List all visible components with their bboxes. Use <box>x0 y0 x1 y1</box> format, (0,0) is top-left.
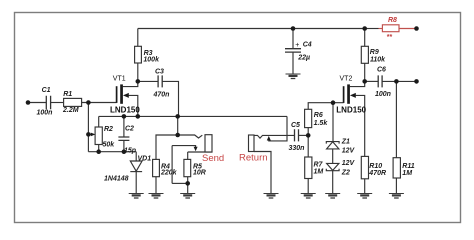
wire rail to R8 <box>365 28 379 30</box>
svg-text:R8: R8 <box>388 17 397 24</box>
wire R2 wiper <box>88 133 93 135</box>
node input terminal <box>26 100 31 105</box>
wire R1 to VT1 gate <box>81 102 116 104</box>
node R5 bottom junction <box>185 181 190 186</box>
wire send line left to R4 <box>156 135 178 159</box>
zener Z1 <box>326 142 339 149</box>
wire C4 top lead <box>292 29 294 49</box>
svg-text:VT1: VT1 <box>113 76 126 83</box>
svg-text:100n: 100n <box>375 91 391 98</box>
svg-text:R9: R9 <box>370 49 379 56</box>
resistor R3 <box>135 46 142 63</box>
wire C5 right <box>299 134 309 136</box>
wire send jack bottom line <box>188 151 213 153</box>
resistor R6 <box>305 109 312 127</box>
svg-text:2.2M: 2.2M <box>62 107 79 114</box>
node zener gate junction <box>331 100 336 105</box>
wire R11 top lead <box>395 81 397 157</box>
wire zener column <box>332 103 334 142</box>
wire R2 bottom lead <box>98 145 100 152</box>
svg-text:Send: Send <box>202 153 224 164</box>
resistor R8 red <box>382 25 399 32</box>
return jack plug <box>249 135 255 152</box>
wire VT1 source <box>129 95 138 116</box>
svg-text:10R: 10R <box>193 170 206 177</box>
resistor R7 <box>305 157 312 179</box>
svg-text:Return: Return <box>239 153 268 164</box>
wire R3 top lead <box>137 29 139 47</box>
ground under zeners <box>325 194 340 199</box>
svg-text:12V: 12V <box>342 147 356 154</box>
wire C6 right to output <box>382 80 416 82</box>
svg-text:1.5k: 1.5k <box>314 120 329 127</box>
wire zener bottom <box>332 171 334 194</box>
node R8 right terminal <box>414 26 419 31</box>
ground under C4 <box>286 74 301 79</box>
wire zener middle <box>332 149 334 164</box>
transistor VT1 <box>117 84 129 103</box>
wire VD1 top lead <box>135 152 137 161</box>
svg-text:VD1: VD1 <box>138 156 152 163</box>
wire R2 top lead <box>98 116 100 127</box>
node R11 junction <box>394 79 399 84</box>
arrow R2 wiper <box>91 133 96 137</box>
ground under R5 <box>180 194 195 199</box>
wire R9 bottom lead <box>364 63 366 81</box>
wire VT2 source <box>356 95 365 156</box>
wire R5 top lead <box>187 152 189 159</box>
arrow send contact <box>194 147 198 152</box>
node VT1 source junction <box>136 114 141 119</box>
wire send normal contact <box>172 146 196 148</box>
diode VD1 <box>130 161 142 172</box>
svg-text:R2: R2 <box>104 126 113 133</box>
svg-text:22µ: 22µ <box>297 54 310 61</box>
wire C3 left <box>138 80 158 82</box>
ground under return jack <box>264 194 279 199</box>
send jack plug <box>205 135 212 152</box>
svg-text:R6: R6 <box>314 112 323 119</box>
wire C3 right down to send node <box>162 81 178 116</box>
svg-text:VT2: VT2 <box>340 76 353 83</box>
svg-text:C5: C5 <box>291 122 300 129</box>
capacitor C3 <box>158 75 162 87</box>
svg-text:100k: 100k <box>143 57 160 64</box>
node R1 gate junction <box>86 100 91 105</box>
resistor R10 <box>361 156 368 178</box>
node send branch <box>175 133 180 138</box>
capacitor C6 <box>378 75 382 87</box>
svg-text:470n: 470n <box>153 92 170 99</box>
wire R8 right red <box>399 28 417 30</box>
svg-text:50k: 50k <box>103 142 116 149</box>
capacitor C2 <box>118 137 129 140</box>
svg-text:1N4148: 1N4148 <box>104 176 129 183</box>
svg-text:220k: 220k <box>160 170 178 177</box>
svg-text:12V: 12V <box>342 160 356 167</box>
svg-text:15p: 15p <box>124 148 137 155</box>
node C5 R6 R7 junction <box>306 133 311 138</box>
wire send line to jack with switch notch <box>178 135 203 138</box>
wire R10 bottom lead <box>364 179 366 194</box>
wire R8 left red <box>379 28 383 30</box>
wire VD1 bottom lead <box>135 171 137 193</box>
svg-text:R11: R11 <box>402 163 414 170</box>
svg-text:C1: C1 <box>42 87 51 94</box>
wire R5 bottom lead <box>187 177 189 194</box>
wire send inner vertical <box>171 146 173 184</box>
wire VT1 drain stub <box>123 81 138 86</box>
svg-text:330n: 330n <box>289 145 305 152</box>
wire R6 bottom lead <box>307 128 309 136</box>
wire R6 top lead <box>308 103 343 109</box>
ground under VD1 <box>129 194 144 199</box>
wire C6 left <box>365 80 379 82</box>
wire C4 bottom lead <box>292 52 294 74</box>
wire return sleeve to ground <box>254 152 271 194</box>
svg-text:LND150: LND150 <box>336 106 366 115</box>
wire C2 top lead <box>123 116 125 137</box>
capacitor C4 <box>285 49 301 52</box>
wire send inner bottom <box>172 182 188 184</box>
wire R7 bottom lead <box>307 179 309 194</box>
node output terminal <box>414 79 419 84</box>
wire return normalling from source rail <box>269 116 287 140</box>
node VT2 drain junction <box>362 79 367 84</box>
wire top rail <box>138 28 365 30</box>
wire R7 top lead <box>307 135 309 157</box>
svg-text:470R: 470R <box>368 170 386 177</box>
wire source rail <box>99 115 287 117</box>
ground under R7 <box>301 194 316 199</box>
wire R3 bottom lead <box>137 63 139 81</box>
ground under R11 <box>389 194 404 199</box>
wire return tip arm with switch notch <box>254 135 295 138</box>
svg-text:1M: 1M <box>402 170 412 177</box>
capacitor C1 <box>46 96 50 109</box>
svg-text:100n: 100n <box>37 109 53 116</box>
ground under R10 <box>357 194 372 199</box>
svg-text:C2: C2 <box>125 126 134 133</box>
wire R4 bottom lead <box>155 177 157 194</box>
svg-text:R7: R7 <box>314 161 324 168</box>
wire C2 bottom lead <box>123 140 125 151</box>
node VT1 drain junction <box>136 79 141 84</box>
resistor R11 <box>393 158 400 178</box>
wire gate node down to bottom rail <box>87 103 89 152</box>
capacitor C5 <box>295 129 299 141</box>
transistor VT2 <box>344 84 356 103</box>
wire C1 to R1 <box>51 102 63 104</box>
svg-text:Z2: Z2 <box>341 170 350 177</box>
svg-text:110k: 110k <box>370 56 386 63</box>
svg-text:R1: R1 <box>63 91 72 98</box>
wire R9 top lead <box>364 29 366 47</box>
resistor R9 <box>361 46 368 63</box>
arrow return contact <box>267 136 271 141</box>
wire send branch down <box>177 116 179 135</box>
wire input to C1 <box>28 102 46 104</box>
node C2 top junction <box>122 114 127 119</box>
node wiper junction <box>86 132 91 137</box>
resistor R4 <box>153 159 160 176</box>
wire bottom rail <box>88 151 136 153</box>
node C4 rail junction <box>291 26 296 31</box>
resistor R1 <box>64 98 82 106</box>
node C2 bottom junction <box>122 149 127 154</box>
wire R11 bottom lead <box>395 178 397 194</box>
zener Z2 <box>326 163 339 170</box>
resistor R2 body <box>95 127 102 145</box>
node R2 bottom junction <box>96 149 101 154</box>
svg-text:Z1: Z1 <box>341 138 350 145</box>
svg-text:+: + <box>295 42 299 49</box>
resistor R5 <box>184 159 191 176</box>
wire VT2 drain stub <box>350 81 365 86</box>
svg-text:**: ** <box>387 34 393 41</box>
svg-text:C6: C6 <box>377 67 386 74</box>
svg-text:LND150: LND150 <box>110 106 140 115</box>
ground under R4 <box>149 194 164 199</box>
svg-text:C4: C4 <box>303 42 312 49</box>
svg-text:1M: 1M <box>314 168 324 175</box>
node R9 rail junction <box>362 26 367 31</box>
node send branch top <box>175 114 180 119</box>
svg-text:C3: C3 <box>155 69 164 76</box>
